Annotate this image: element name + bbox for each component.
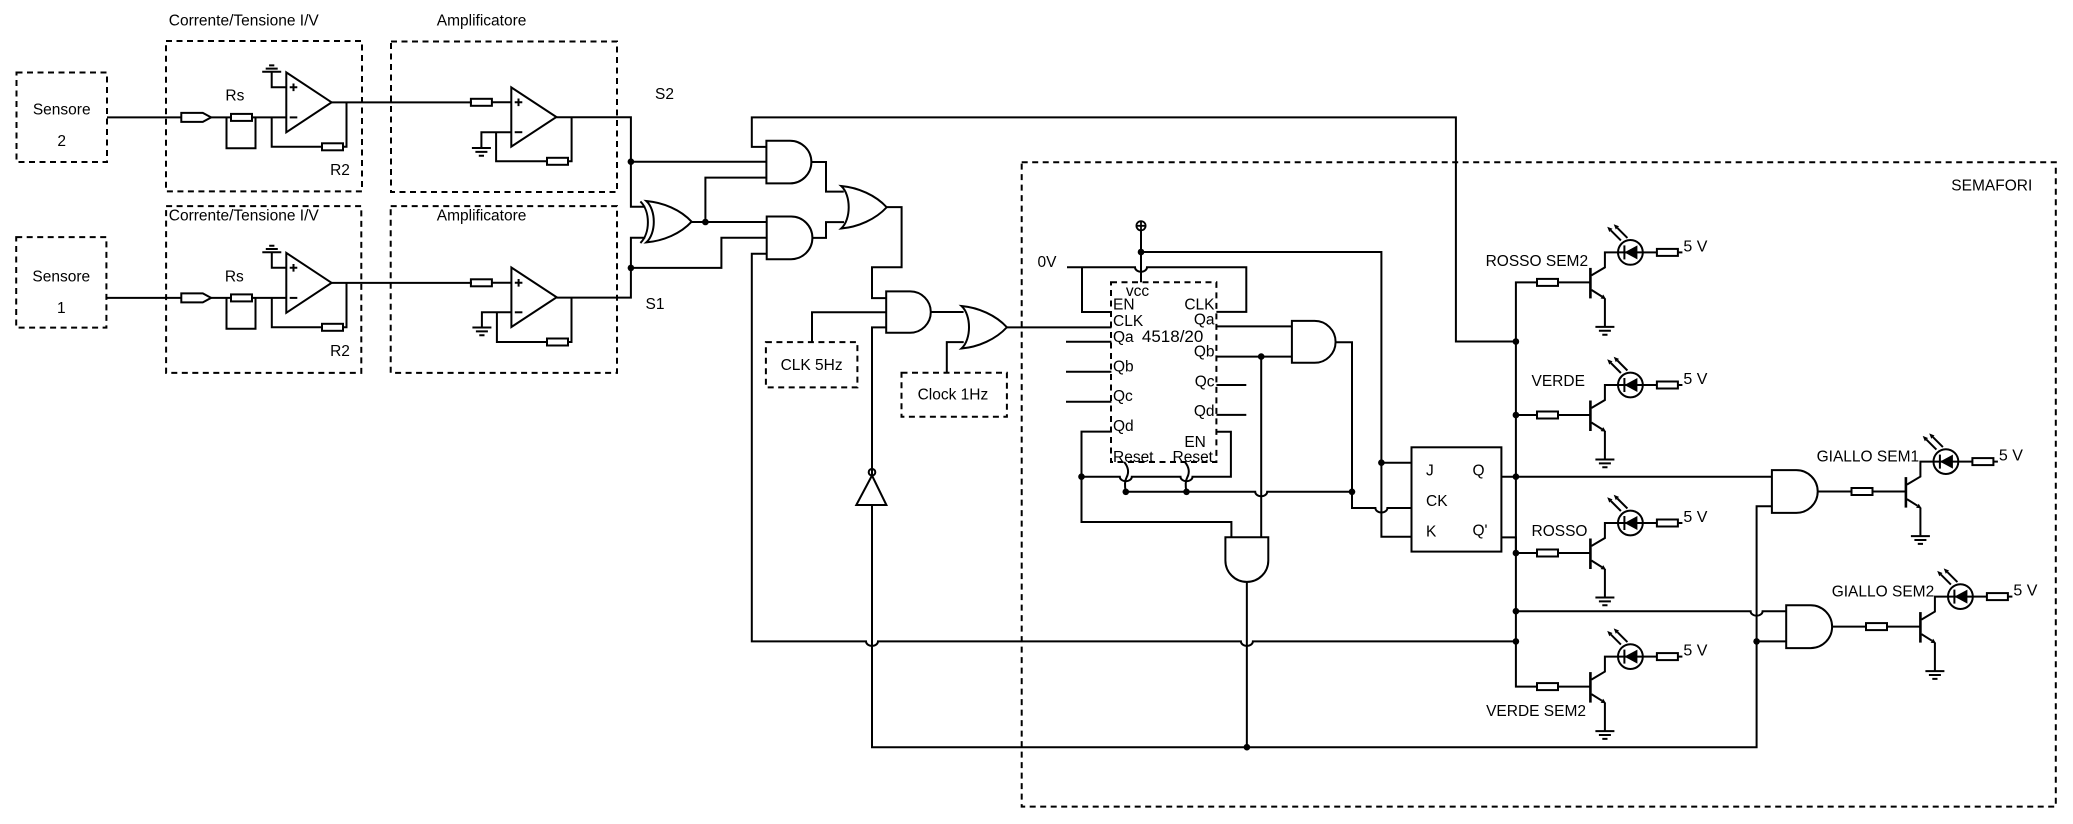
svg-text:R2: R2 — [330, 343, 350, 360]
counter 4518/20 box — [1111, 282, 1216, 462]
wire Qd left to reset bus — [1082, 432, 1112, 477]
svg-text:5 V: 5 V — [2013, 583, 2037, 600]
svg-text:Q: Q — [1473, 463, 1485, 480]
wire Rs to op-amp (bottom) — [252, 297, 286, 299]
node S1 junction — [628, 265, 635, 272]
svg-text:Qb: Qb — [1194, 344, 1215, 361]
svg-text:5 V: 5 V — [1683, 509, 1707, 526]
wire to 5V label ROSSO — [1678, 522, 1683, 524]
resistor U4 feedback — [547, 339, 568, 346]
resistor Rs (top) — [231, 114, 252, 121]
LED VERDE — [1618, 373, 1643, 398]
wire U3 output to amplifier (bottom) — [332, 282, 472, 284]
wire reset bus — [1126, 492, 1352, 497]
transistor VERDE SEM2 — [1589, 672, 1592, 703]
node vcc junction — [1138, 249, 1145, 256]
svg-text:0V: 0V — [1038, 254, 1058, 271]
stub Qd right — [1216, 414, 1246, 416]
Amplificatore box top — [391, 42, 617, 193]
wire G5 output to OR G7 — [931, 311, 964, 313]
svg-text:VERDE: VERDE — [1532, 373, 1585, 390]
ground GIALLO SEM1 — [1911, 536, 1930, 544]
LED VERDE SEM2 — [1618, 644, 1643, 669]
wire loop under Rs (top) — [227, 117, 256, 148]
wire G3 input3 to bottom bus — [752, 254, 1516, 646]
input tag buffer (top) — [181, 113, 211, 122]
svg-text:CK: CK — [1426, 493, 1448, 510]
svg-text:VERDE SEM2: VERDE SEM2 — [1486, 703, 1586, 720]
feedback wire U4 — [497, 312, 547, 342]
wire XOR output to AND2 input1 — [692, 221, 767, 223]
svg-text:5 V: 5 V — [1683, 643, 1707, 660]
wire right Reset squiggle — [1185, 462, 1189, 492]
svg-text:J: J — [1426, 463, 1434, 480]
wire S1 to AND2 input2 — [631, 238, 767, 268]
wire Rs to op-amp — [252, 116, 286, 118]
AND gate G5 (clock gate) — [886, 291, 931, 332]
wire vcc to counter — [1140, 230, 1142, 282]
NOT gate G6 bubble — [869, 469, 876, 476]
wire Q output — [1501, 476, 1772, 478]
NOT gate G6 triangle — [856, 476, 886, 506]
wire Qb down to reset AND — [1260, 357, 1262, 538]
svg-text:Qa: Qa — [1113, 329, 1134, 346]
wire U4 feedback to output — [568, 298, 572, 342]
AND gate G8 (Qa.Qb) — [1292, 321, 1336, 363]
resistor amp input (top) — [471, 99, 492, 106]
OR gate G7 — [962, 306, 1007, 349]
Sensore 2 box — [17, 73, 108, 163]
wire G3 output to OR G4 — [812, 222, 844, 238]
OR gate G4 — [841, 186, 887, 229]
I/V converter box top — [166, 41, 362, 191]
wire ROSSO tap — [1516, 552, 1537, 554]
wire S1: U4 output to XOR input — [557, 238, 646, 298]
svg-text:Qd: Qd — [1194, 403, 1215, 420]
node XOR output — [702, 219, 709, 226]
resistor base VERDE — [1537, 412, 1558, 419]
svg-text:S2: S2 — [655, 86, 674, 103]
resistor base ROSSO — [1537, 550, 1558, 557]
node Qb junction — [1258, 353, 1265, 360]
wire 0V to EN and CLK — [1067, 267, 1246, 312]
resistor base GIALLO SEM2 — [1866, 623, 1887, 630]
feedback wire U1 — [272, 117, 322, 146]
ground GIALLO SEM2 — [1925, 671, 1944, 679]
wire S2 to AND1 input2 — [631, 161, 767, 163]
wire R2 to U3 output — [343, 283, 347, 327]
wire Sensore2 to buffer — [107, 116, 181, 118]
svg-text:Q': Q' — [1473, 523, 1488, 540]
op-amp U2 (amplifier top) — [511, 87, 556, 146]
svg-text:ROSSO: ROSSO — [1532, 523, 1588, 540]
node Q junction — [1513, 473, 1520, 480]
svg-text:S1: S1 — [646, 296, 665, 313]
wire to 5V label VERDE SEM2 — [1678, 656, 1683, 658]
ground VERDE — [1595, 460, 1614, 468]
wire U2 feedback to output — [568, 117, 572, 161]
stub Qa left — [1066, 341, 1111, 343]
wire LED GIALLO SEM2 to resistor — [1973, 596, 1987, 598]
svg-text:GIALLO SEM1: GIALLO SEM1 — [1817, 449, 1920, 466]
wire Clock1Hz to G7 input2 — [947, 342, 964, 373]
wire to U2 + input — [491, 101, 511, 103]
resistor 5V VERDE SEM2 — [1657, 653, 1678, 660]
wire J input — [1381, 462, 1411, 464]
svg-text:Rs: Rs — [225, 269, 244, 286]
CLK 5Hz box — [766, 342, 858, 387]
op-amp U4 (amplifier bottom) — [511, 268, 556, 328]
svg-text:ROSSO SEM2: ROSSO SEM2 — [1486, 253, 1589, 270]
wire G4 output to G5 input1 — [872, 207, 902, 298]
svg-text:Amplificatore: Amplificatore — [437, 13, 527, 30]
wire R2 to U1 output — [343, 102, 347, 146]
AND gate G9 (reset, down) — [1225, 537, 1268, 582]
wire XOR output to AND1 input3 — [705, 178, 766, 222]
wire to reset AND input1 — [1082, 477, 1232, 538]
wire LED ROSSO to 5V resistor — [1643, 522, 1657, 524]
wire base bus to GIALLO2 AND — [1516, 611, 1786, 616]
svg-text:SEMAFORI: SEMAFORI — [1951, 177, 2032, 194]
wire vcc to J and K — [1141, 252, 1412, 537]
wire to 5V label GIALLO SEM2 — [2008, 596, 2013, 598]
svg-text:5 V: 5 V — [1683, 371, 1707, 388]
node base bus VERDE — [1513, 412, 1520, 419]
resistor 5V GIALLO SEM2 — [1987, 593, 2008, 600]
resistor 5V GIALLO SEM1 — [1972, 458, 1993, 465]
stub Qb left — [1066, 371, 1111, 373]
wire junction to GIALLO2 AND input2 — [1757, 640, 1787, 642]
svg-text:Rs: Rs — [225, 88, 244, 105]
svg-text:1: 1 — [57, 300, 66, 317]
resistor R2 (bottom feedback) — [322, 324, 343, 331]
AND gate G3 (middle) — [767, 217, 813, 260]
wire 0V branch to EN left — [1082, 267, 1111, 312]
vcc supply symbol — [1136, 221, 1145, 230]
node base bus ROSSO — [1513, 550, 1520, 557]
resistor base ROSSO SEM2 — [1537, 279, 1558, 286]
feedback wire U3 — [272, 298, 322, 327]
transistor GIALLO SEM2 — [1919, 612, 1922, 643]
svg-text:Qa: Qa — [1194, 312, 1215, 329]
svg-text:CLK: CLK — [1113, 313, 1144, 330]
node left Reset junction — [1123, 489, 1130, 496]
I/V converter box bottom — [166, 206, 361, 373]
AND gate G11 (GIALLO SEM2) — [1786, 605, 1832, 648]
AND gate G2 (top) — [766, 141, 811, 184]
AND gate G10 (GIALLO SEM1) — [1772, 470, 1818, 513]
ground ROSSO SEM2 — [1595, 327, 1614, 335]
op-amp U1 (I/V top) — [286, 72, 331, 132]
wire left Reset squiggle — [1124, 462, 1128, 492]
wire G2 output to OR G4 — [811, 162, 843, 192]
node base bus GIALLO2 — [1513, 608, 1520, 615]
wire LED GIALLO SEM1 to resistor — [1958, 461, 1972, 463]
wire to 5V label VERDE — [1678, 384, 1683, 386]
ground at U1 + input — [262, 65, 281, 71]
resistor base GIALLO SEM1 — [1852, 488, 1873, 495]
svg-text:Reset: Reset — [1113, 449, 1154, 466]
stub Qc right — [1216, 384, 1246, 386]
wire G11 output to base resistor — [1832, 626, 1866, 628]
svg-text:Qb: Qb — [1113, 358, 1134, 375]
wire VERDE tap — [1516, 414, 1537, 416]
node G9 output on bus — [1244, 744, 1251, 751]
SEMAFORI box — [1022, 162, 2056, 806]
node base bus top — [1513, 338, 1520, 345]
svg-text:Amplificatore: Amplificatore — [437, 208, 527, 225]
resistor U2 feedback — [547, 158, 568, 165]
LED ROSSO SEM2 — [1618, 240, 1643, 265]
wire NOT output to G5 input3 — [872, 327, 886, 475]
wire buffer to Rs — [211, 116, 231, 118]
wire to 5V label ROSSO SEM2 — [1678, 251, 1683, 253]
wire S2: U2 output to XOR input — [556, 117, 645, 207]
wire U1 output to amplifier (top) — [332, 101, 472, 103]
svg-text:EN: EN — [1113, 297, 1135, 314]
transistor ROSSO — [1589, 539, 1592, 570]
wire to U4 + input — [491, 282, 511, 284]
svg-text:Corrente/Tensione I/V: Corrente/Tensione I/V — [169, 13, 320, 30]
input tag buffer (bottom) — [181, 293, 211, 302]
wire buffer to Rs (bottom) — [211, 297, 231, 299]
wire LED base bus — [1516, 282, 1537, 686]
wire Qa right to AND G8 — [1216, 325, 1292, 327]
svg-text:5 V: 5 V — [1683, 238, 1707, 255]
wire CLK5Hz to G5 input2 — [812, 312, 886, 342]
LED ROSSO — [1618, 511, 1643, 536]
wire Sensore1 to buffer — [106, 297, 181, 299]
wire resistor to Q5 — [1873, 491, 1906, 493]
resistor 5V ROSSO SEM2 — [1657, 249, 1678, 256]
wire G7 output to counter CLK — [1007, 326, 1112, 328]
wire loop under Rs (bottom) — [227, 298, 256, 329]
svg-text:K: K — [1426, 524, 1437, 541]
svg-text:Qd: Qd — [1113, 418, 1134, 435]
ground ROSSO — [1595, 598, 1614, 606]
node GIALLO2 junction — [1753, 638, 1760, 645]
svg-text:R2: R2 — [330, 162, 350, 179]
node J junction — [1378, 459, 1385, 466]
resistor R2 (top feedback) — [322, 143, 343, 150]
Amplificatore box bottom — [391, 206, 617, 373]
node base bus bottom — [1513, 638, 1520, 645]
wire to 5V label GIALLO SEM1 — [1993, 461, 1998, 463]
ground VERDE SEM2 — [1595, 731, 1614, 739]
resistor base VERDE SEM2 — [1537, 683, 1558, 690]
node S2 junction — [628, 158, 635, 165]
transistor ROSSO SEM2 — [1589, 268, 1592, 299]
svg-text:2: 2 — [57, 133, 66, 150]
Clock 1Hz box — [902, 373, 1007, 417]
node right Reset junction — [1183, 489, 1190, 496]
JK flip-flop U5 box — [1412, 447, 1502, 551]
LED GIALLO SEM2 — [1948, 584, 1973, 609]
wire GIALLO1 AND input2 long net — [872, 505, 1772, 747]
svg-text:Qc: Qc — [1113, 388, 1133, 405]
stub Qc left — [1066, 401, 1111, 403]
svg-text:Qc: Qc — [1195, 374, 1215, 391]
wire Qb right to AND G8 — [1216, 356, 1292, 358]
XOR gate G1 — [646, 201, 691, 242]
wire Q' output — [1501, 537, 1516, 553]
ground at U2 - input — [481, 132, 511, 148]
svg-text:Reset: Reset — [1173, 449, 1214, 466]
svg-text:Clock 1Hz: Clock 1Hz — [918, 387, 989, 404]
resistor 5V ROSSO — [1657, 520, 1678, 527]
wire LED ROSSO SEM2 to 5V resistor — [1643, 251, 1657, 253]
transistor VERDE — [1589, 401, 1592, 432]
wire G9 output to bottom bus — [1246, 582, 1248, 747]
wire junction to CK pin — [1352, 492, 1412, 513]
wire G10 output to base resistor — [1818, 491, 1852, 493]
resistor Rs (bottom) — [231, 294, 252, 301]
svg-text:Corrente/Tensione I/V: Corrente/Tensione I/V — [169, 208, 320, 225]
svg-text:5 V: 5 V — [1999, 448, 2023, 465]
feedback wire U2 — [496, 132, 547, 161]
resistor 5V VERDE — [1657, 382, 1678, 389]
svg-text:CLK 5Hz: CLK 5Hz — [781, 357, 843, 374]
wire G8 output to JK CK — [1336, 342, 1352, 492]
ground at U4 - input — [482, 312, 512, 327]
wire resistor to Q6 — [1887, 626, 1920, 628]
node CK junction — [1349, 489, 1356, 496]
resistor amp input (bottom) — [471, 279, 492, 286]
LED GIALLO SEM1 — [1934, 449, 1959, 474]
wire EN right to reset bus — [1082, 432, 1231, 481]
svg-text:Sensore: Sensore — [33, 101, 91, 118]
transistor GIALLO SEM1 — [1905, 477, 1908, 508]
wire LED VERDE to 5V resistor — [1643, 384, 1657, 386]
node Qd bus junction — [1078, 473, 1085, 480]
svg-text:Sensore: Sensore — [32, 269, 90, 286]
wire LED VERDE SEM2 to 5V resistor — [1643, 656, 1657, 658]
svg-text:GIALLO SEM2: GIALLO SEM2 — [1832, 584, 1935, 601]
Sensore 1 box — [16, 237, 106, 328]
wire top net G2-in1 to LED column — [752, 117, 1516, 341]
ground at U3 + input — [262, 246, 281, 252]
op-amp U3 (I/V bottom) — [286, 253, 331, 313]
